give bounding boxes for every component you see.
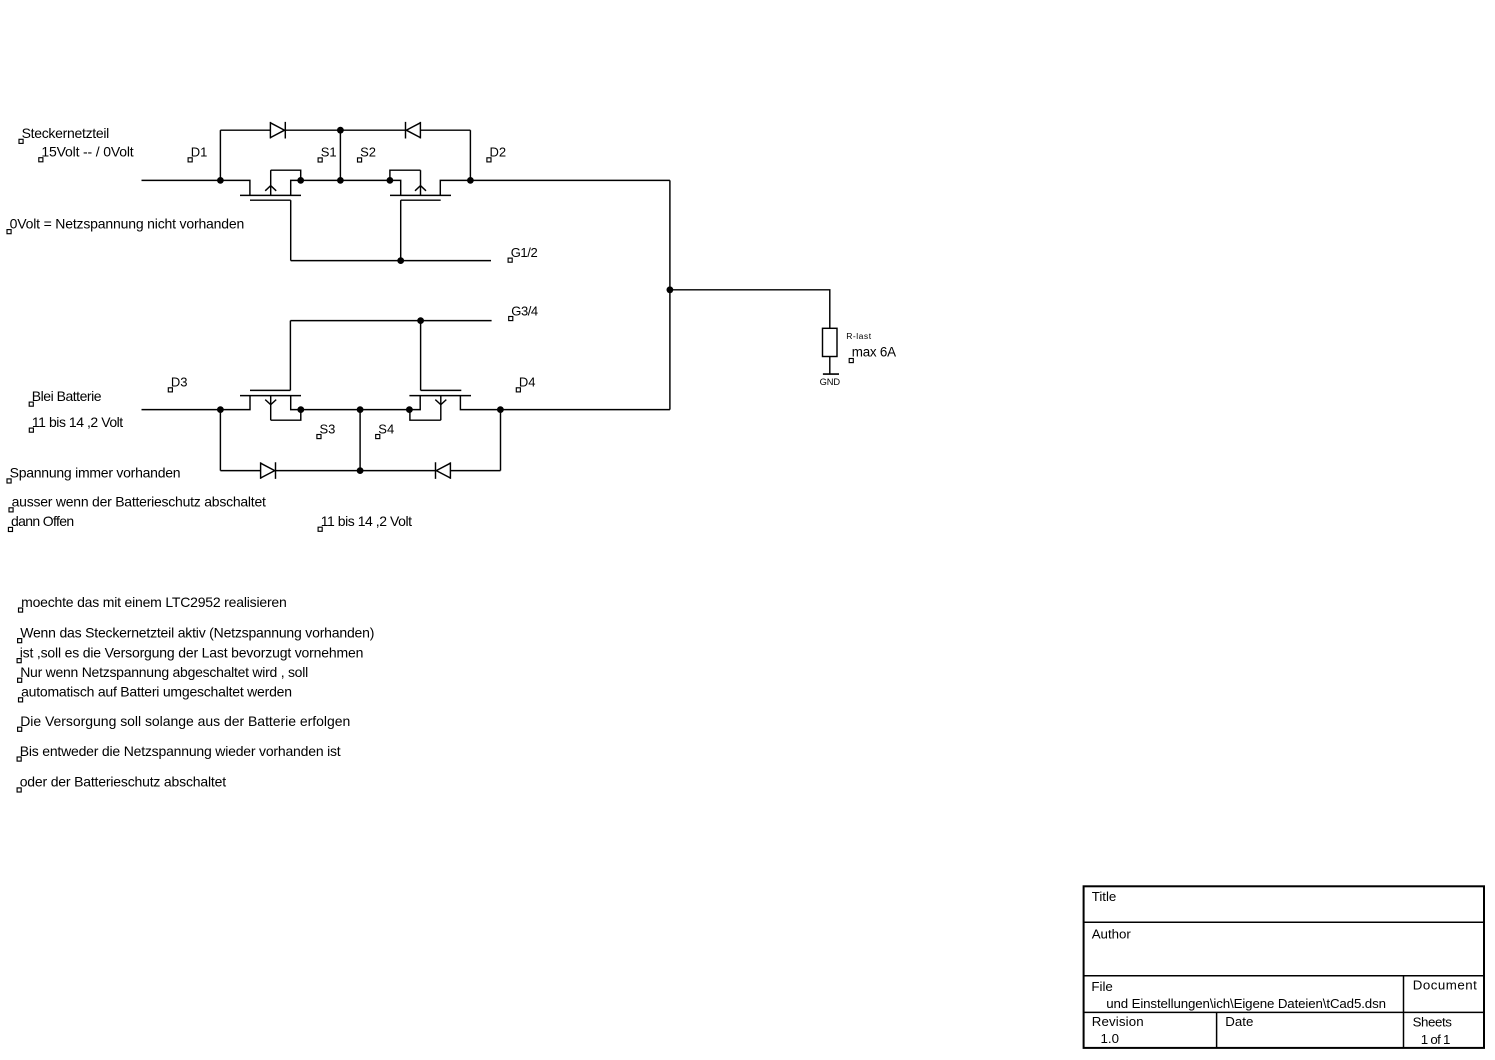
svg-text:GND: GND [820, 377, 841, 387]
resistor R-last [823, 328, 838, 356]
wire - top rail middle segment [285, 129, 405, 131]
wire - top rail right segment [420, 129, 470, 131]
svg-text:R-last: R-last [846, 331, 872, 341]
svg-text:Steckernetzteil: Steckernetzteil [22, 125, 110, 141]
wire - bottom rail right segment [450, 470, 500, 472]
node C - upper output junction [467, 177, 474, 184]
svg-text:File: File [1091, 979, 1112, 994]
node - G3/4 rail junction [417, 317, 424, 324]
svg-text:G3/4: G3/4 [511, 303, 538, 318]
node A - upper input junction [217, 177, 224, 184]
svg-text:D4: D4 [519, 375, 536, 390]
svg-text:und Einstellungen\ich\Eigene D: und Einstellungen\ich\Eigene Dateien\tCa… [1106, 996, 1386, 1011]
node - bottom rail mid junction [357, 467, 364, 474]
svg-text:Bis entweder die Netzspannung: Bis entweder die Netzspannung wieder vor… [20, 743, 341, 759]
svg-text:automatisch auf Batteri umgesc: automatisch auf Batteri umgeschaltet wer… [21, 684, 292, 700]
svg-text:max 6A: max 6A [852, 345, 896, 360]
transistor Q4 (lower right MOSFET, flipped+mirrored) [409, 390, 500, 420]
svg-text:dann Offen: dann Offen [11, 513, 74, 529]
wire - top rail down to node C [469, 130, 471, 180]
transistor Q2 (upper right MOSFET, mirrored) [390, 170, 471, 200]
wire - G3/4 gate rail [290, 320, 491, 322]
wire - Q1 gate drop to G1/2 rail [290, 200, 292, 260]
wire - mid junction up to lower rail [359, 410, 361, 471]
wire - rail between Q3 and Q4 sources [301, 409, 410, 411]
svg-text:S4: S4 [378, 421, 394, 436]
svg-text:D2: D2 [490, 145, 507, 160]
diode (top left, anode left) [270, 122, 285, 139]
wire - battery input lead (lower rail) [142, 409, 221, 411]
svg-text:D3: D3 [171, 375, 188, 390]
wire - node A up to top diode rail [219, 130, 221, 180]
wire - bottom rail up to node C2 [500, 410, 502, 471]
wire - branch to load resistor [670, 290, 830, 329]
node A2 - lower input junction [217, 406, 224, 413]
transistor Q1 (upper left MOSFET) [220, 170, 301, 200]
wire - top rail left segment to diode [220, 129, 270, 131]
svg-text:1.0: 1.0 [1101, 1031, 1120, 1046]
node - load tap junction [667, 286, 674, 293]
svg-text:Title: Title [1092, 889, 1117, 904]
svg-text:Wenn das Steckernetzteil aktiv: Wenn das Steckernetzteil aktiv (Netzspan… [20, 624, 374, 640]
node C2 - lower output junction [497, 406, 504, 413]
wire - bottom rail left segment [220, 470, 260, 472]
svg-text:D1: D1 [191, 145, 208, 160]
diode (bottom right, cathode left) [436, 462, 451, 479]
wire - G1/2 gate rail [291, 260, 491, 262]
wire - rail between Q1 and Q2 sources [301, 179, 390, 181]
wire - Q4 gate riser to G3/4 rail [420, 321, 422, 391]
svg-text:Author: Author [1092, 926, 1132, 941]
svg-text:oder der Batterieschutz abscha: oder der Batterieschutz abschaltet [20, 774, 227, 790]
svg-text:G1/2: G1/2 [511, 245, 538, 260]
svg-text:Spannung immer vorhanden: Spannung immer vorhanden [10, 465, 181, 481]
node B - top rail junction above S1/S2 [337, 127, 344, 134]
wire - output vertical joining both rails [669, 180, 671, 409]
wire - lower rail to output corner [500, 409, 670, 411]
wire - Q3 gate riser to G3/4 rail [289, 321, 291, 391]
svg-text:Date: Date [1225, 1014, 1253, 1029]
transistor Q3 (lower left MOSFET, flipped) [220, 390, 301, 420]
svg-text:ist ,soll es die Versorgung de: ist ,soll es die Versorgung der Last bev… [20, 644, 364, 660]
node - S1/S2 mid junction [337, 177, 344, 184]
svg-text:Blei Batterie: Blei Batterie [32, 388, 102, 404]
node - lower rail mid junction [357, 406, 364, 413]
svg-text:Die Versorgung soll solange a: Die Versorgung soll solange aus der Batt… [20, 713, 350, 729]
node S1 - Q1 source junction [297, 177, 304, 184]
ground GND [823, 373, 839, 375]
node - G1/2 rail junction [397, 257, 404, 264]
svg-text:Revision: Revision [1092, 1014, 1144, 1029]
svg-text:11 bis 14 ,2 Volt: 11 bis 14 ,2 Volt [32, 414, 123, 430]
node S3 - Q3 source junction [297, 406, 304, 413]
diode (bottom left, anode left) [261, 462, 276, 479]
svg-text:Sheets: Sheets [1413, 1015, 1453, 1030]
svg-text:S3: S3 [320, 421, 336, 436]
svg-text:Nur wenn Netzspannung abgescha: Nur wenn Netzspannung abgeschaltet wird … [20, 664, 308, 680]
node S4 - Q4 source junction [406, 406, 413, 413]
wire - bottom rail middle segment [276, 470, 436, 472]
wire - node B down to S1/S2 rail [339, 130, 341, 180]
wire - resistor to ground [829, 357, 831, 375]
svg-text:S2: S2 [360, 145, 376, 160]
svg-text:11 bis 14 ,2 Volt: 11 bis 14 ,2 Volt [321, 513, 412, 529]
svg-text:0Volt = Netzspannung nicht vor: 0Volt = Netzspannung nicht vorhanden [10, 215, 245, 231]
wire - upper rail to output corner [470, 179, 670, 181]
wire - node A2 down to bottom diode rail [219, 410, 221, 471]
svg-text:Document: Document [1413, 978, 1477, 993]
diode (top right, cathode left) [406, 122, 421, 139]
svg-text:ausser wenn der Batterieschutz: ausser wenn der Batterieschutz abschalte… [12, 494, 266, 510]
wire - AC input lead (upper rail from plug supply) [142, 179, 221, 181]
svg-text:moechte das mit einem LTC2952: moechte das mit einem LTC2952 realisiere… [21, 594, 287, 610]
node S2 - Q2 source junction [387, 177, 394, 184]
svg-text:S1: S1 [321, 145, 337, 160]
svg-text:1 of 1: 1 of 1 [1421, 1032, 1451, 1047]
wire - Q2 gate drop to G1/2 rail [400, 200, 402, 260]
title block frame [1084, 886, 1484, 1048]
svg-text:15Volt -- / 0Volt: 15Volt -- / 0Volt [41, 144, 133, 160]
